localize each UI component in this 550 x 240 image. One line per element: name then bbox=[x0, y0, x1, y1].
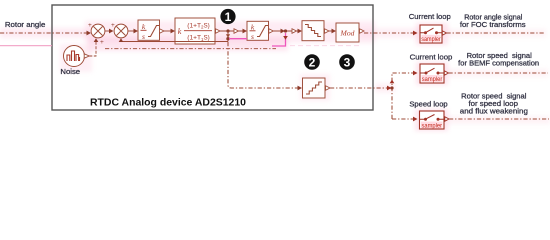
output port arrow SP1 bbox=[442, 31, 446, 35]
svg-text:Noise: Noise bbox=[60, 67, 80, 76]
output port arrow G1 bbox=[160, 29, 165, 34]
summer S2 (feedback compare) bbox=[114, 24, 128, 38]
svg-text:(1+T2S): (1+T2S) bbox=[187, 22, 209, 29]
block G1: k/s with saturation bbox=[138, 20, 160, 41]
wire G2 to integrator G3 bbox=[220, 30, 243, 32]
background halos (decorative) bbox=[0, 21, 550, 131]
arrow into summer S1 bbox=[87, 31, 92, 36]
junction node C bbox=[226, 37, 229, 40]
wire SP1 output (dash-dot) bbox=[447, 32, 546, 34]
output port arrow Q2 bbox=[326, 86, 331, 91]
svg-text:3: 3 bbox=[344, 55, 351, 69]
wire split to sampler SP3 bbox=[392, 118, 414, 120]
summer S1 (noise injection) bbox=[91, 24, 105, 38]
junction node D bbox=[390, 86, 393, 89]
output port arrow G2 bbox=[216, 29, 221, 34]
svg-text:Mod: Mod bbox=[340, 28, 355, 37]
RTDC model boundary box bbox=[52, 5, 373, 110]
svg-text:1: 1 bbox=[225, 10, 232, 24]
marker circle 1 bbox=[220, 9, 235, 24]
wire SP2 output (dash-dot) bbox=[449, 72, 549, 74]
wire S2 to integrator block G1 bbox=[128, 30, 134, 32]
output port arrow SP3 bbox=[445, 117, 449, 121]
svg-text:for BEMF compensation: for BEMF compensation bbox=[458, 59, 539, 68]
arrow up on split bbox=[390, 80, 395, 84]
arrow into S2 bottom bbox=[119, 38, 124, 42]
noise source N1 bbox=[64, 46, 90, 67]
wire noise to S1 bbox=[89, 42, 96, 56]
svg-text:for FOC transforms: for FOC transforms bbox=[460, 20, 526, 29]
sampler SP2 bbox=[420, 64, 444, 83]
svg-text:Current loop: Current loop bbox=[410, 53, 453, 62]
svg-text:sampler: sampler bbox=[422, 77, 443, 83]
svg-text:(1+T1S): (1+T1S) bbox=[187, 35, 209, 42]
wire G1 to lead-lag bbox=[164, 30, 171, 32]
output port arrow Mod bbox=[360, 29, 365, 34]
svg-text:and flux weakening: and flux weakening bbox=[460, 107, 528, 116]
output port arrow G3 bbox=[269, 29, 274, 34]
svg-text:+: + bbox=[100, 39, 104, 46]
wire S1 to S2 bbox=[105, 30, 110, 32]
svg-text:Current loop: Current loop bbox=[409, 12, 451, 21]
sampler SP1 bbox=[420, 25, 442, 43]
arrow into S1 bottom bbox=[94, 38, 99, 42]
wire SP3 output (dash-dot) bbox=[449, 118, 549, 120]
marker circle 3 bbox=[339, 54, 355, 70]
wire node A down to velocity quantizer (dash-dot) bbox=[228, 42, 299, 88]
svg-text:RTDC Analog device AD2S1210: RTDC Analog device AD2S1210 bbox=[90, 98, 246, 109]
block Q2: velocity quantizer (ascending staircase) bbox=[303, 78, 326, 98]
block Mod bbox=[336, 23, 359, 42]
svg-text:sampler: sampler bbox=[421, 37, 441, 43]
svg-text:Speed loop: Speed loop bbox=[409, 100, 447, 109]
block G3: k/s integrator with saturation bbox=[247, 21, 269, 41]
wire Q1 to Mod bbox=[329, 30, 334, 32]
arrow down on node B branch bbox=[283, 36, 288, 40]
block Q1: quantizer (descending staircase) bbox=[302, 21, 324, 41]
svg-text:2: 2 bbox=[309, 55, 316, 69]
svg-text:−: − bbox=[125, 39, 129, 46]
svg-text:+: + bbox=[111, 22, 115, 29]
magenta wire node C to G3 bbox=[229, 38, 247, 40]
feedback wire from node A down bbox=[227, 31, 229, 42]
magenta wire from node B down-left bbox=[272, 33, 286, 46]
svg-text:k: k bbox=[178, 27, 182, 36]
wire G3 to quantizer Q1 bbox=[273, 30, 300, 32]
svg-text:Rotor angle: Rotor angle bbox=[5, 20, 46, 29]
wire rotor-angle input (dash-dot) bbox=[0, 32, 87, 34]
block G2: lead-lag compensator k(1+T2S)/(1+T1S) bbox=[175, 18, 215, 44]
arrow into sampler SP2 bbox=[413, 71, 418, 76]
output port arrow SP2 bbox=[444, 71, 448, 75]
feedback wire to S2 bottom bbox=[121, 40, 228, 43]
wire Mod to sampler SP1 (dash-dot) bbox=[364, 32, 414, 34]
internal dash-dot bus line bbox=[105, 48, 276, 50]
wire speed split vertical bbox=[392, 73, 414, 119]
marker circle 2 bbox=[304, 54, 320, 70]
sampler SP3 bbox=[420, 111, 445, 130]
arrow into sampler SP3 bbox=[413, 117, 418, 122]
faint angle wire left segment bbox=[0, 45, 52, 47]
svg-text:+: + bbox=[88, 22, 92, 29]
faint wire right segment bbox=[290, 45, 360, 47]
mid arrow on wire bbox=[234, 29, 239, 34]
wire Q2 to split node (dash-dot) bbox=[330, 87, 388, 89]
arrow down on node A branch bbox=[226, 34, 230, 38]
svg-text:sampler: sampler bbox=[422, 124, 443, 130]
svg-text:s: s bbox=[251, 32, 254, 41]
junction node A bbox=[226, 29, 229, 32]
output port arrow Q1 bbox=[325, 29, 330, 34]
svg-text:s: s bbox=[142, 32, 145, 41]
junction node B bbox=[284, 29, 287, 32]
